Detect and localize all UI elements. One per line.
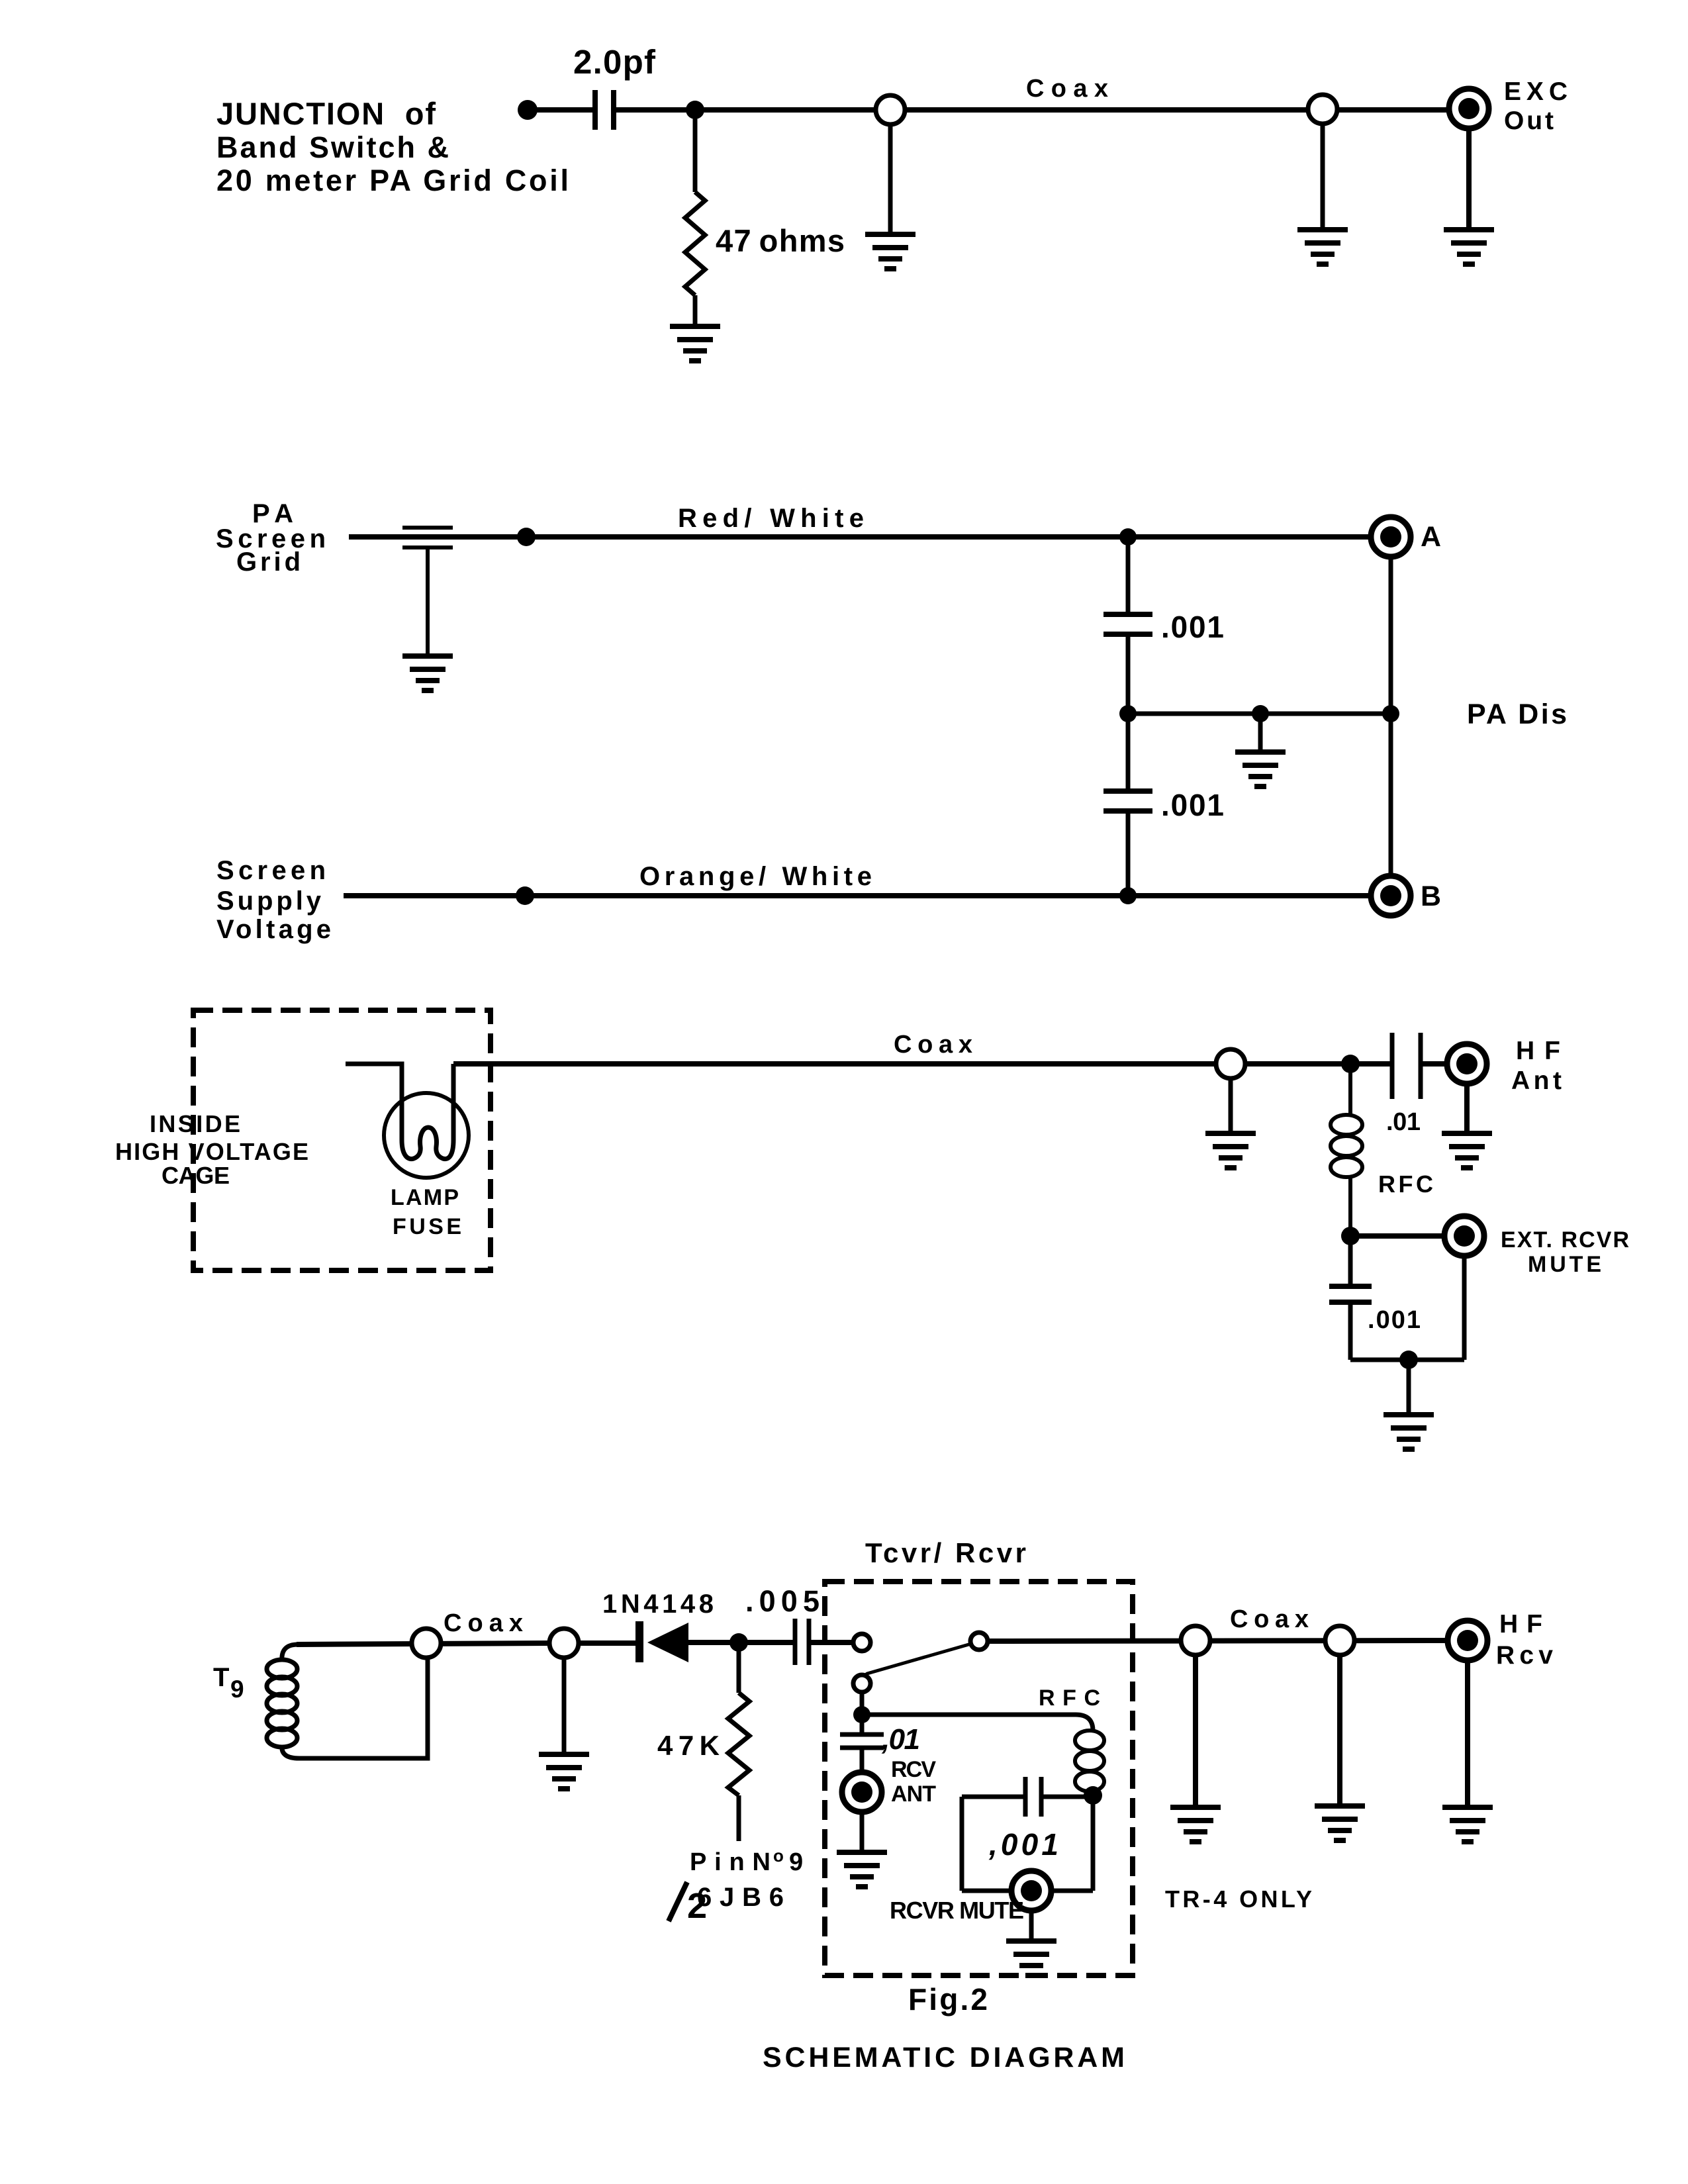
relay contact (xmit, open) xyxy=(853,1634,870,1651)
label LAMP FUSE xyxy=(391,1185,461,1239)
wire C1 to EXC Out xyxy=(614,107,1450,113)
resistor R 47 ohms xyxy=(685,110,705,326)
svg-text:Grid: Grid xyxy=(236,547,301,577)
svg-text:.01: .01 xyxy=(1386,1108,1421,1136)
ground under shield (rcv run 2) xyxy=(1315,1806,1365,1840)
inductor RFC (vertical) xyxy=(1331,1064,1362,1236)
wire mid bus xyxy=(1128,712,1391,716)
relay arm xyxy=(863,1644,971,1677)
ground under mid bus xyxy=(1235,752,1286,786)
coax shield circle (to diode) xyxy=(549,1629,579,1658)
connector RCV ANT xyxy=(842,1772,882,1812)
ground under coax shield xyxy=(539,1754,589,1789)
svg-text:2.0pf: 2.0pf xyxy=(573,43,656,81)
relay contact (rcv) xyxy=(853,1675,870,1692)
wire coax shield to ground xyxy=(562,1658,567,1754)
resistor 47K xyxy=(728,1642,749,1841)
ground under HF Ant xyxy=(1442,1133,1492,1168)
svg-text:RFC: RFC xyxy=(1378,1170,1433,1198)
wire shield to ground xyxy=(1337,1655,1342,1806)
wire junction down to .001 cap xyxy=(1348,1236,1353,1286)
ground under feedthrough capacitor xyxy=(402,656,453,690)
capacitor C .001 (lower) xyxy=(1103,791,1152,811)
wire shield to ground xyxy=(1193,1655,1198,1807)
label HF Rcv xyxy=(1496,1610,1553,1670)
svg-text:,01: ,01 xyxy=(881,1723,920,1756)
wire cap bottom to bus xyxy=(1348,1302,1353,1360)
ground under coax shield 2 xyxy=(1297,230,1348,264)
capacitor .001 (mute bypass) xyxy=(1329,1286,1372,1302)
svg-text:ANT: ANT xyxy=(891,1781,936,1807)
wire bottom of mute loop xyxy=(962,1889,1093,1893)
coax shield circle 2 xyxy=(1308,95,1337,124)
svg-text:SCHEMATIC DIAGRAM: SCHEMATIC DIAGRAM xyxy=(763,2042,1125,2073)
ground under coax shield xyxy=(1205,1133,1256,1168)
dashed box Tcvr/Rcvr xyxy=(825,1582,1133,1975)
capacitor ,001 loop top wire xyxy=(962,1777,1093,1817)
svg-text:T: T xyxy=(213,1663,229,1692)
wire node to RFC 2 xyxy=(862,1715,1093,1731)
coax shield circle (rcv run 2) xyxy=(1325,1626,1354,1655)
label INSIDE HIGH VOLTAGE CAGE xyxy=(115,1110,308,1189)
svg-text:.001: .001 xyxy=(1161,788,1224,822)
capacitor C .001 (upper) xyxy=(1103,614,1152,634)
wire RCV ANT to ground xyxy=(860,1812,865,1852)
connector HF Rcv xyxy=(1448,1621,1487,1660)
svg-text:PinN: PinN xyxy=(690,1848,771,1876)
svg-text:47 ohms: 47 ohms xyxy=(716,223,845,258)
connector A xyxy=(1371,517,1411,557)
svg-text:EXT. RCVR: EXT. RCVR xyxy=(1501,1227,1629,1253)
dashed box: inside high voltage cage xyxy=(193,1010,491,1270)
wire rcv contact to node xyxy=(860,1692,865,1715)
wire HF Rcv to ground xyxy=(1465,1661,1470,1807)
label RCV ANT xyxy=(891,1757,936,1807)
svg-text:RFC: RFC xyxy=(1039,1685,1100,1711)
connector RCVR MUTE xyxy=(1011,1871,1051,1911)
node at 47K xyxy=(729,1633,748,1652)
transformer T9 winding xyxy=(267,1644,428,1758)
wire capacitor lower to Orange/White wire xyxy=(1126,811,1131,896)
node RFC bottom xyxy=(1084,1786,1102,1805)
svg-text:B: B xyxy=(1421,880,1441,912)
feedthrough capacitor on PA screen grid lead xyxy=(402,528,453,656)
svg-text:Band Switch &: Band Switch & xyxy=(216,130,449,164)
svg-text:A: A xyxy=(1421,521,1441,553)
ground under shield (rcv run 1) xyxy=(1170,1807,1221,1842)
wire coax shield 2 to ground xyxy=(1321,124,1325,230)
wire junction to C1 xyxy=(528,107,595,113)
svg-text:o: o xyxy=(773,1846,784,1866)
wire between A and B xyxy=(1389,557,1393,876)
node on Red/White wire xyxy=(517,528,536,546)
wire relay common to HF Rcv xyxy=(989,1640,1448,1641)
wire bottom bus xyxy=(1350,1358,1464,1362)
svg-text:Supply: Supply xyxy=(216,886,322,916)
wire circle2 to diode xyxy=(579,1640,637,1646)
label PA Screen Grid xyxy=(216,499,326,577)
wire Orange/White xyxy=(344,893,1372,898)
label HF Ant xyxy=(1511,1037,1562,1095)
ground under EXC Out xyxy=(1444,230,1494,264)
svg-text:Tcvr/ Rcvr: Tcvr/ Rcvr xyxy=(865,1537,1026,1568)
label EXC Out xyxy=(1504,77,1568,135)
wire cap to HF Ant xyxy=(1421,1061,1448,1067)
svg-text:MUTE: MUTE xyxy=(1528,1252,1601,1277)
diode 1N4148 xyxy=(639,1621,688,1662)
connector EXC Out xyxy=(1449,89,1489,128)
wire RCVR MUTE to ground xyxy=(1029,1911,1034,1941)
node: junction at RFC xyxy=(1341,1055,1360,1073)
svg-text:Fig.2: Fig.2 xyxy=(908,1982,988,2017)
wire capacitor to mid bus xyxy=(1126,634,1131,714)
coax shield circle (mid run) xyxy=(1216,1049,1245,1078)
node rcv ant xyxy=(853,1706,870,1723)
wire mid bus to capacitor .001 (lower) xyxy=(1126,714,1131,791)
label EXT. RCVR MUTE xyxy=(1501,1227,1629,1277)
ground under RCVR MUTE xyxy=(1006,1941,1056,1975)
svg-text:JUNCTION of: JUNCTION of xyxy=(216,96,436,131)
svg-text:20 meter PA Grid Coil: 20 meter PA Grid Coil xyxy=(216,164,569,197)
svg-text:HIGH VOLTAGE: HIGH VOLTAGE xyxy=(115,1138,308,1165)
wire HF Ant to ground xyxy=(1464,1084,1470,1133)
svg-text:Ant: Ant xyxy=(1511,1067,1562,1095)
coax shield circle (T9 output) xyxy=(412,1629,441,1658)
svg-text:RCVR MUTE: RCVR MUTE xyxy=(890,1897,1024,1924)
wire EXC Out jack to ground xyxy=(1466,128,1472,230)
node: band switch junction terminal xyxy=(518,100,538,120)
label: JUNCTION of Band Switch & 20 meter PA Grid Coil xyxy=(216,96,569,197)
node: junction at EXT RCVR MUTE xyxy=(1341,1227,1360,1245)
connector B xyxy=(1371,876,1411,916)
node bottom of .001 branch xyxy=(1119,887,1137,904)
svg-text:Red/ White: Red/ White xyxy=(678,504,864,533)
connector EXT RCVR MUTE xyxy=(1444,1216,1484,1256)
svg-text:Out: Out xyxy=(1504,107,1554,135)
svg-text:Screen: Screen xyxy=(216,856,326,885)
svg-text:Rcv: Rcv xyxy=(1496,1641,1553,1670)
lamp fuse leads and filament xyxy=(346,1064,453,1159)
lamp fuse bulb xyxy=(384,1093,469,1178)
relay common contact xyxy=(970,1633,988,1650)
node on bottom bus xyxy=(1399,1351,1418,1369)
connector HF Ant xyxy=(1447,1044,1487,1084)
label 1/2 6JB6 xyxy=(669,1882,784,1926)
node mid bus right xyxy=(1382,705,1399,722)
ground under 47 ohm resistor xyxy=(670,326,720,361)
inductor RFC (rcv) xyxy=(1075,1731,1104,1791)
wire right side of mute loop xyxy=(1091,1795,1096,1891)
capacitor .005 xyxy=(795,1619,809,1665)
wire T9 to coax circle 1 xyxy=(297,1643,549,1644)
wire junction to EXT RCVR MUTE jack xyxy=(1350,1233,1446,1239)
wire EXT RCVR MUTE jack down to bus xyxy=(1462,1256,1467,1360)
capacitor ,01 xyxy=(840,1715,884,1773)
wire diode to .005 cap xyxy=(688,1640,795,1645)
label Screen Supply Voltage xyxy=(216,856,331,944)
wire bus to ground xyxy=(1407,1360,1411,1415)
node: junction at 47 ohm resistor xyxy=(686,101,704,119)
wire coax shield to ground xyxy=(1229,1078,1233,1133)
wire Red/White xyxy=(349,534,1372,540)
node on Orange/White wire xyxy=(516,886,534,905)
wire Coax (lamp to HF Ant) xyxy=(453,1061,1392,1067)
wire .005 to relay contact xyxy=(809,1640,853,1645)
wire left side of mute loop xyxy=(960,1797,964,1891)
svg-text:CAGE: CAGE xyxy=(162,1162,230,1189)
svg-text:9: 9 xyxy=(789,1848,803,1876)
wire down to capacitor .001 (upper) xyxy=(1126,537,1131,614)
ground under HF Rcv xyxy=(1442,1807,1493,1842)
svg-text:.001: .001 xyxy=(1368,1306,1421,1334)
ground under RCV ANT xyxy=(837,1852,887,1887)
label T9 xyxy=(213,1663,244,1703)
svg-text:RCV: RCV xyxy=(891,1757,936,1782)
node mid bus center xyxy=(1252,705,1269,722)
svg-text:9: 9 xyxy=(230,1676,244,1703)
svg-text:2: 2 xyxy=(687,1886,707,1926)
wire coax shield 1 to ground xyxy=(888,124,893,234)
capacitor 2.0pf xyxy=(595,90,614,130)
coax shield circle 1 xyxy=(876,95,905,124)
node: top of .001 branch xyxy=(1119,528,1137,546)
coax shield circle (rcv run 1) xyxy=(1181,1626,1210,1655)
ground under mute bus xyxy=(1383,1415,1434,1449)
svg-text:47K: 47K xyxy=(657,1730,720,1761)
svg-text:.001: .001 xyxy=(1161,610,1224,644)
svg-text:EXC: EXC xyxy=(1504,77,1568,106)
capacitor .01 (series to HF Ant) xyxy=(1392,1033,1421,1099)
wire mid bus to ground xyxy=(1258,714,1263,752)
svg-text:LAMP: LAMP xyxy=(391,1185,459,1210)
ground under coax shield 1 xyxy=(865,234,915,269)
node mid bus left xyxy=(1119,705,1137,722)
